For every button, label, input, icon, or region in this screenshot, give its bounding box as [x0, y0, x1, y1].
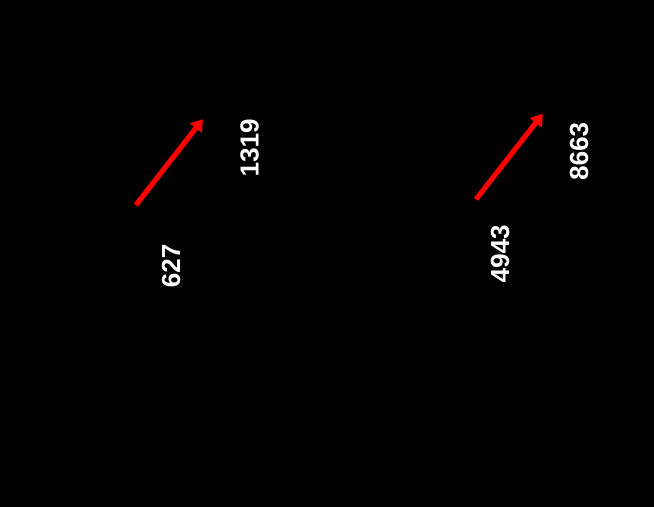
- growth arrow 2 (right, red): [474, 114, 543, 201]
- svg-text:4943: 4943: [485, 224, 515, 282]
- svg-text:8663: 8663: [564, 122, 594, 180]
- svg-text:627: 627: [156, 244, 186, 287]
- svg-text:1319: 1319: [234, 118, 264, 176]
- growth arrow 1 (left, red): [134, 119, 203, 207]
